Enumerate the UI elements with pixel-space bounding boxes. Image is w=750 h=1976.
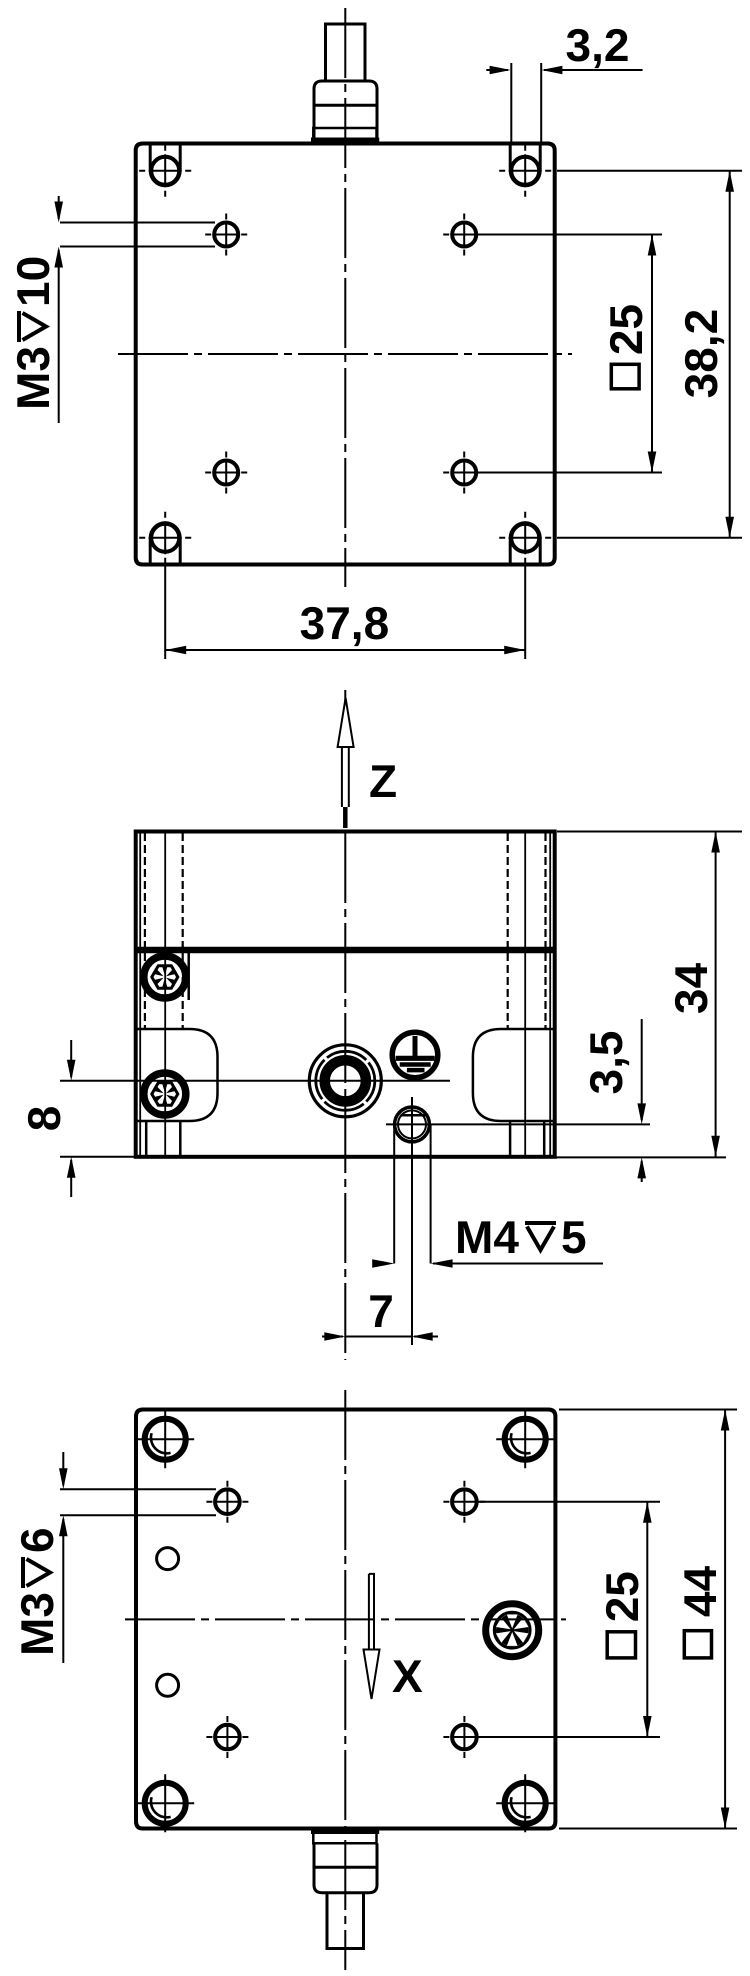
hidden line left 1 xyxy=(144,833,146,1029)
M3 tapped hole at (464.4,1737) xyxy=(452,1725,477,1750)
svg-text:3,2: 3,2 xyxy=(566,19,630,71)
svg-text:38,2: 38,2 xyxy=(675,309,727,399)
dimension text 3,5 (rotated) xyxy=(580,1031,632,1095)
svg-text:25: 25 xyxy=(596,1571,648,1622)
dimension 3,2 line and arrows xyxy=(486,69,508,71)
central lock screw (torx) xyxy=(486,1604,539,1657)
svg-text:34: 34 xyxy=(665,963,717,1015)
svg-text:M3: M3 xyxy=(11,1592,63,1656)
svg-text:Z: Z xyxy=(369,755,397,807)
socket head screw at (164.8,977) xyxy=(144,956,186,998)
top connector body groove line xyxy=(314,104,377,107)
through hole with counterbore at (525.2,1803.2) xyxy=(505,1783,546,1824)
hidden line left 2 xyxy=(182,833,184,1029)
dowel hole upper xyxy=(157,1548,179,1570)
bottom connector body groove line xyxy=(314,1866,377,1869)
socket head screw at (164.8,1094) xyxy=(144,1073,186,1115)
left clamp pocket xyxy=(136,1029,218,1121)
hidden line right 1 xyxy=(507,833,509,1029)
front view vertical centerline xyxy=(344,833,346,1360)
dimension square-25 (bottom view) xyxy=(478,1501,660,1503)
dimension text M3 v10 (rotated) xyxy=(7,256,59,410)
top cable connector body xyxy=(314,81,377,141)
dimension 3,2 extension lines xyxy=(510,63,512,143)
dimension 7 xyxy=(322,1336,343,1338)
svg-text:25: 25 xyxy=(600,304,652,355)
inner edge line left xyxy=(139,833,141,1155)
top view: body outline plate 44x44 xyxy=(136,144,555,565)
bottom view body outline xyxy=(136,1410,555,1829)
dimension text 38,2 (rotated) xyxy=(675,309,727,399)
leader lines to M3 hole (bottom view) xyxy=(60,1488,216,1490)
dimension text M3 v6 (rotated) xyxy=(11,1527,63,1656)
leader lines to M3 hole (tangent pair) xyxy=(60,222,215,224)
corner mounting hole 3,2 at (525.2,537) with slot xyxy=(509,538,512,564)
through hole with counterbore at (165.2,1439.2) xyxy=(145,1419,186,1460)
M4 hole tangent extension lines xyxy=(393,1124,395,1263)
dimension M4 depth 5 line xyxy=(372,1259,394,1268)
corner mounting hole 3,2 at (165.2,170) with slot xyxy=(149,144,152,171)
X axis arrow xyxy=(369,1574,374,1650)
dimension 3,5 (right) xyxy=(386,1123,650,1125)
dimension 37,8 extension lines xyxy=(164,566,166,659)
screw axis line right xyxy=(524,833,526,1155)
M4 tapped hole front xyxy=(395,1107,430,1142)
dimension text square 25 (top view, rotated) xyxy=(600,304,652,355)
right clamp pocket xyxy=(473,1029,555,1121)
top connector flange xyxy=(313,128,376,141)
bottom connector pin xyxy=(327,1893,364,1949)
Z axis arrow xyxy=(338,698,354,747)
top cable connector pin xyxy=(326,24,366,81)
dimension text 34 (rotated) xyxy=(665,963,717,1015)
bottom connector flange xyxy=(313,1831,376,1844)
bottom cable connector base bar xyxy=(311,1829,379,1834)
corner mounting hole 3,2 at (525.2,170) with slot xyxy=(509,144,512,171)
bottom view horizontal centerline xyxy=(125,1618,566,1620)
dimension text square 25 (bottom view, rotated) xyxy=(596,1571,648,1622)
svg-text:M4: M4 xyxy=(455,1211,519,1263)
centerline tick below 37,8 dim xyxy=(344,690,346,703)
svg-text:6: 6 xyxy=(11,1527,63,1553)
wall edge beside upper screw xyxy=(187,952,190,1000)
svg-text:M3: M3 xyxy=(7,346,59,410)
dimension square-25 line (top view) xyxy=(651,235,653,473)
front view body outline xyxy=(136,832,555,1157)
bottom connector body xyxy=(314,1843,377,1892)
dimension 38,2 extension lines xyxy=(557,170,742,172)
through hole with counterbore at (525.2,1439.2) xyxy=(505,1419,546,1460)
dimension 37,8 line xyxy=(165,649,525,651)
M3 tapped hole at (226.2,472.5) xyxy=(214,461,238,485)
top view horizontal centerline xyxy=(118,353,572,355)
dimension 8 (left) xyxy=(60,1156,136,1158)
dimension square-25 extension lines (top view) xyxy=(478,234,662,236)
svg-text:10: 10 xyxy=(7,256,59,307)
inner edge line right xyxy=(549,833,551,1155)
hidden line right 2 xyxy=(544,833,546,1029)
svg-text:8: 8 xyxy=(18,1106,70,1132)
dimension M3 depth 10 arrows xyxy=(58,196,60,219)
svg-text:7: 7 xyxy=(368,1285,394,1337)
through hole with counterbore at (165.2,1803.2) xyxy=(145,1783,186,1824)
protective earth symbol xyxy=(392,1032,438,1078)
M3 tapped hole at (464.2,234.5) xyxy=(452,223,476,247)
foot edges right xyxy=(509,1121,512,1155)
table/base separation line xyxy=(136,947,555,954)
dimension text M4 v5 xyxy=(455,1211,587,1263)
M3 tapped hole at (464.2,472.5) xyxy=(452,461,476,485)
svg-text:37,8: 37,8 xyxy=(300,597,390,649)
dimension M3 depth 6 arrows xyxy=(62,1452,64,1485)
dowel hole lower xyxy=(157,1674,179,1696)
screw axis line left xyxy=(164,833,166,1155)
M3 tapped hole at (464.4,1501.7) xyxy=(452,1489,477,1514)
M3 tapped hole at (227.4,1501.7) xyxy=(215,1489,240,1514)
foot edges left xyxy=(145,1121,148,1155)
bottom view vertical centerline xyxy=(344,1390,346,1970)
corner mounting hole 3,2 at (165.2,537) with slot xyxy=(149,538,152,564)
central coaxial connector xyxy=(309,1045,381,1117)
dimension text square 44 (rotated) xyxy=(674,1566,726,1618)
M3 tapped hole at (227.4,1737) xyxy=(215,1725,240,1750)
dimension 38,2 line xyxy=(729,171,731,538)
svg-text:3,5: 3,5 xyxy=(580,1031,632,1095)
dimension 34 (far right) xyxy=(557,831,742,833)
M4 hole vertical centerline xyxy=(411,1097,413,1345)
top connector base bar xyxy=(311,138,379,143)
svg-text:5: 5 xyxy=(561,1211,587,1263)
dimension square-44 xyxy=(559,1409,737,1411)
svg-text:X: X xyxy=(392,1650,423,1702)
connector row horizontal centerline / 8-dim extension xyxy=(60,1080,450,1082)
svg-text:44: 44 xyxy=(674,1566,726,1618)
dimension text 8 (rotated) xyxy=(18,1106,70,1132)
M3 tapped hole at (226.2,234.5) xyxy=(214,223,238,247)
top view vertical centerline xyxy=(344,8,346,587)
